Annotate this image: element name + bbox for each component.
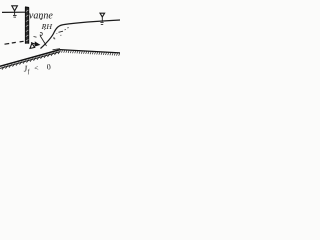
bed hatching left (2, 51, 61, 70)
gate (vanne) body (25, 7, 29, 44)
open triangle mark under gate (30, 43, 35, 48)
label Jf < 0 (23, 62, 51, 75)
hydraulic jump face curve (41, 25, 64, 49)
svg-text:RH: RH (41, 22, 53, 31)
small marks near gate opening (label a + noise) (34, 29, 46, 37)
gate hatching (light flecks) (26, 10, 29, 41)
downstream water surface line (64, 20, 121, 25)
stray ink fleck (40, 18, 42, 20)
flow arrow under gate (31, 41, 40, 46)
upstream water level symbol (12, 6, 18, 17)
channel bed line (right) (60, 50, 120, 53)
upstream water surface line (2, 11, 26, 13)
roller end dash above bed (53, 49, 61, 50)
channel bed line (adverse slope, left) (0, 50, 60, 67)
upstream dashed bed line (5, 41, 24, 44)
leader line from label a to gate opening (40, 36, 47, 47)
background (0, 0, 120, 80)
bed hatching right (62, 50, 120, 56)
bed lower parallel line left (0, 52, 60, 69)
turbulence marks under jump (54, 28, 69, 39)
downstream water level symbol (100, 13, 105, 24)
